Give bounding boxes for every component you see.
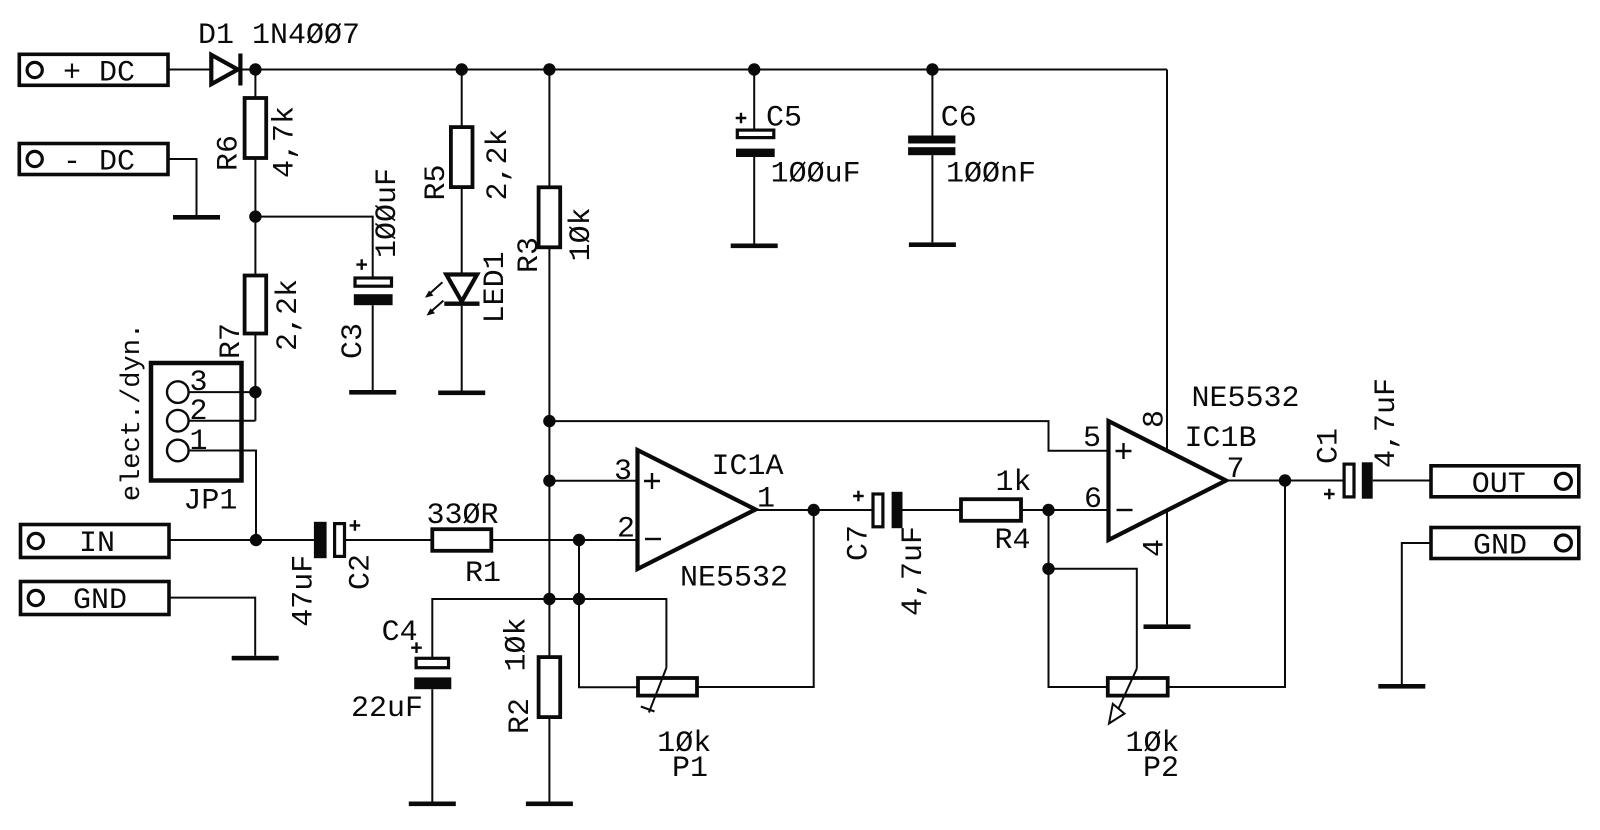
wire LED1 to ground: [461, 306, 463, 391]
wire C5 to ground: [753, 157, 755, 244]
wire R7 to JP1 pins: [254, 334, 256, 421]
ground (R2): [526, 802, 573, 807]
svg-text:NE5532: NE5532: [680, 562, 788, 596]
wire P1 right to output: [697, 510, 814, 687]
ground (C5): [731, 244, 778, 249]
wire IN to C2: [169, 539, 314, 541]
svg-text:R2: R2: [504, 698, 538, 734]
ground (-DC): [173, 215, 220, 220]
wire pin6 node down: [1048, 510, 1050, 569]
diode D1: [198, 19, 360, 86]
potentiometer P2 10k: [1108, 669, 1180, 786]
svg-text:P1: P1: [672, 752, 708, 786]
wire IC1B output to C1: [1226, 480, 1343, 482]
wire GND right to ground: [1402, 543, 1431, 684]
svg-text:IC1A: IC1A: [711, 450, 783, 484]
svg-text:D1 1N4ØØ7: D1 1N4ØØ7: [198, 19, 360, 53]
svg-text:2: 2: [617, 513, 635, 547]
svg-text:2: 2: [189, 395, 207, 429]
terminal GND left: [21, 582, 170, 619]
junction pin6/P2: [1042, 504, 1054, 516]
ground (IC1B pin4): [1144, 624, 1191, 629]
wire C4 to ground: [431, 689, 433, 801]
wire R3 down to divider node: [548, 247, 550, 599]
junction rail/R6: [249, 63, 261, 75]
capacitor C6 100nF: [908, 102, 1036, 192]
svg-text:- DC: - DC: [63, 145, 135, 179]
svg-text:IN: IN: [79, 527, 115, 561]
resistor R3 10k: [513, 187, 599, 273]
capacitor C5 100uF: [736, 102, 861, 192]
wire divider node to R2: [548, 599, 550, 657]
svg-text:C7: C7: [843, 525, 877, 561]
wire pin5 feed from divider: [549, 421, 1108, 451]
junction rail/C6: [926, 63, 938, 75]
wire GND to ground: [169, 598, 255, 656]
capacitor C1 4,7uF: [1313, 378, 1405, 499]
svg-text:R6: R6: [213, 135, 247, 171]
resistor R5 2,2k: [420, 127, 516, 200]
svg-text:1ØØnF: 1ØØnF: [946, 158, 1036, 192]
LED LED1: [425, 251, 513, 323]
junction P2 left/wiper: [1042, 563, 1054, 575]
svg-text:elect./dyn.: elect./dyn.: [118, 323, 148, 501]
svg-text:1k: 1k: [995, 466, 1031, 500]
capacitor C7 4,7uF: [843, 491, 932, 616]
svg-text:47uF: 47uF: [288, 555, 322, 627]
wire pin3 feed: [549, 480, 637, 482]
wire rail to C6: [931, 70, 933, 136]
junction output/P1: [808, 504, 820, 516]
svg-text:1: 1: [189, 425, 207, 459]
junction node IN/JP1 pin1: [250, 534, 262, 546]
svg-text:C6: C6: [941, 102, 977, 136]
svg-text:1ØØuF: 1ØØuF: [371, 168, 405, 258]
op-amp IC1B: [1083, 382, 1300, 557]
connector JP1: [118, 323, 242, 519]
svg-text:R3: R3: [513, 237, 547, 273]
terminal -DC: [19, 144, 168, 180]
terminal OUT: [1431, 466, 1579, 502]
wire top supply rail: [242, 69, 1167, 71]
junction feedback/C4: [573, 593, 585, 605]
wire R2 to ground: [548, 717, 550, 801]
wire JP1 pin2: [189, 420, 256, 422]
capacitor C2 47uF: [288, 520, 379, 627]
wire IC1A output to C7: [756, 509, 872, 511]
svg-text:LED1: LED1: [479, 251, 513, 323]
svg-text:NE5532: NE5532: [1191, 382, 1299, 416]
svg-text:1Øk: 1Øk: [501, 617, 535, 671]
svg-text:R1: R1: [465, 557, 501, 591]
junction divider/C4/R2: [543, 593, 555, 605]
ground (GND out): [1378, 684, 1425, 689]
resistor R6 4,7k: [213, 98, 303, 178]
svg-text:5: 5: [1083, 422, 1101, 456]
svg-text:C3: C3: [337, 323, 371, 359]
wire C1 to OUT: [1373, 480, 1431, 482]
resistor R2 10k: [501, 617, 561, 734]
wire C6 to ground: [931, 155, 933, 242]
wire C4 branch / feedback horizontal: [432, 599, 666, 668]
wire rail to IC1B pin 8: [1166, 70, 1168, 452]
wire C3 to ground: [372, 305, 374, 390]
svg-text:2,2k: 2,2k: [272, 279, 306, 351]
resistor R7 2,2k: [215, 276, 306, 360]
wire rail to R3: [548, 70, 550, 188]
wire rail to C5: [753, 70, 755, 129]
capacitor C4 22uF: [351, 616, 451, 726]
ground (C6): [909, 242, 956, 247]
svg-text:R7: R7: [215, 323, 249, 359]
wire JP1 pin1 to IN node: [189, 451, 256, 541]
capacitor C3 100uF: [337, 168, 405, 359]
junction output/P2 right: [1279, 474, 1291, 486]
svg-text:33ØR: 33ØR: [426, 499, 498, 533]
junction pin2/feedback: [573, 534, 585, 546]
wire C2 to R1: [346, 539, 432, 541]
svg-text:GND: GND: [1473, 529, 1527, 563]
ground (C3): [349, 390, 396, 395]
junction R7/JP1 pin3: [249, 386, 261, 398]
svg-text:1: 1: [757, 483, 775, 517]
wire R5 to LED1: [461, 187, 463, 274]
wire R1 to IC1A pin2: [491, 539, 637, 541]
svg-text:1ØØuF: 1ØØuF: [771, 158, 861, 192]
junction R3/pin5 feed: [543, 415, 555, 427]
svg-text:8: 8: [1139, 410, 1173, 428]
resistor R1 330R: [426, 499, 501, 591]
svg-text:22uF: 22uF: [351, 692, 423, 726]
svg-text:4,7k: 4,7k: [269, 106, 303, 178]
svg-text:IC1B: IC1B: [1184, 422, 1256, 456]
junction rail/C5: [748, 63, 760, 75]
svg-text:GND: GND: [73, 584, 127, 618]
svg-text:+ DC: + DC: [63, 57, 135, 91]
svg-text:6: 6: [1084, 483, 1102, 517]
svg-text:OUT: OUT: [1472, 468, 1526, 502]
wire C7 to R4: [903, 509, 962, 511]
wire IC1B pin4 to ground: [1166, 511, 1168, 625]
wire node to R7: [254, 217, 256, 276]
wire R6 to node: [254, 158, 256, 217]
wire rail to R5: [461, 70, 463, 128]
wire JP1 pin3: [189, 391, 256, 393]
svg-text:1Øk: 1Øk: [565, 207, 599, 261]
ground (LED1): [438, 391, 485, 396]
junction R6/R7/C3: [249, 210, 261, 222]
wire -DC to ground: [168, 159, 197, 215]
svg-text:C1: C1: [1313, 428, 1347, 464]
svg-text:C4: C4: [382, 616, 418, 650]
svg-text:P2: P2: [1143, 752, 1179, 786]
ground (GND input): [232, 656, 279, 661]
terminal IN: [21, 525, 170, 562]
ground (C4): [409, 802, 456, 807]
svg-text:3: 3: [614, 455, 632, 489]
svg-text:7: 7: [1226, 453, 1244, 487]
wire +DC to D1: [168, 69, 211, 71]
potentiometer P1 10k: [638, 668, 711, 786]
wire to P2 wiper: [1049, 569, 1137, 669]
wire P2 left terminal: [1049, 569, 1108, 687]
svg-text:JP1: JP1: [183, 485, 237, 519]
junction rail/R5: [456, 63, 468, 75]
resistor R4 1k: [961, 466, 1032, 558]
wire rail to R6: [254, 70, 256, 99]
wire R4 to IC1B pin6: [1021, 509, 1109, 511]
wire node to C3: [255, 217, 372, 277]
terminal +DC: [19, 54, 168, 90]
junction R3/pin3 feed: [543, 475, 555, 487]
svg-text:4,7uF: 4,7uF: [897, 526, 931, 616]
wire pin2 node down: [579, 540, 638, 687]
svg-text:C5: C5: [766, 102, 802, 136]
svg-text:2,2k: 2,2k: [482, 128, 516, 200]
wire P2 right to output: [1168, 481, 1285, 688]
op-amp IC1A: [614, 450, 788, 596]
svg-text:C2: C2: [345, 554, 379, 590]
terminal GND right: [1431, 528, 1579, 564]
svg-text:R4: R4: [994, 524, 1030, 558]
junction rail/R3: [543, 63, 555, 75]
svg-text:4,7uF: 4,7uF: [1370, 378, 1404, 468]
svg-text:R5: R5: [420, 164, 454, 200]
